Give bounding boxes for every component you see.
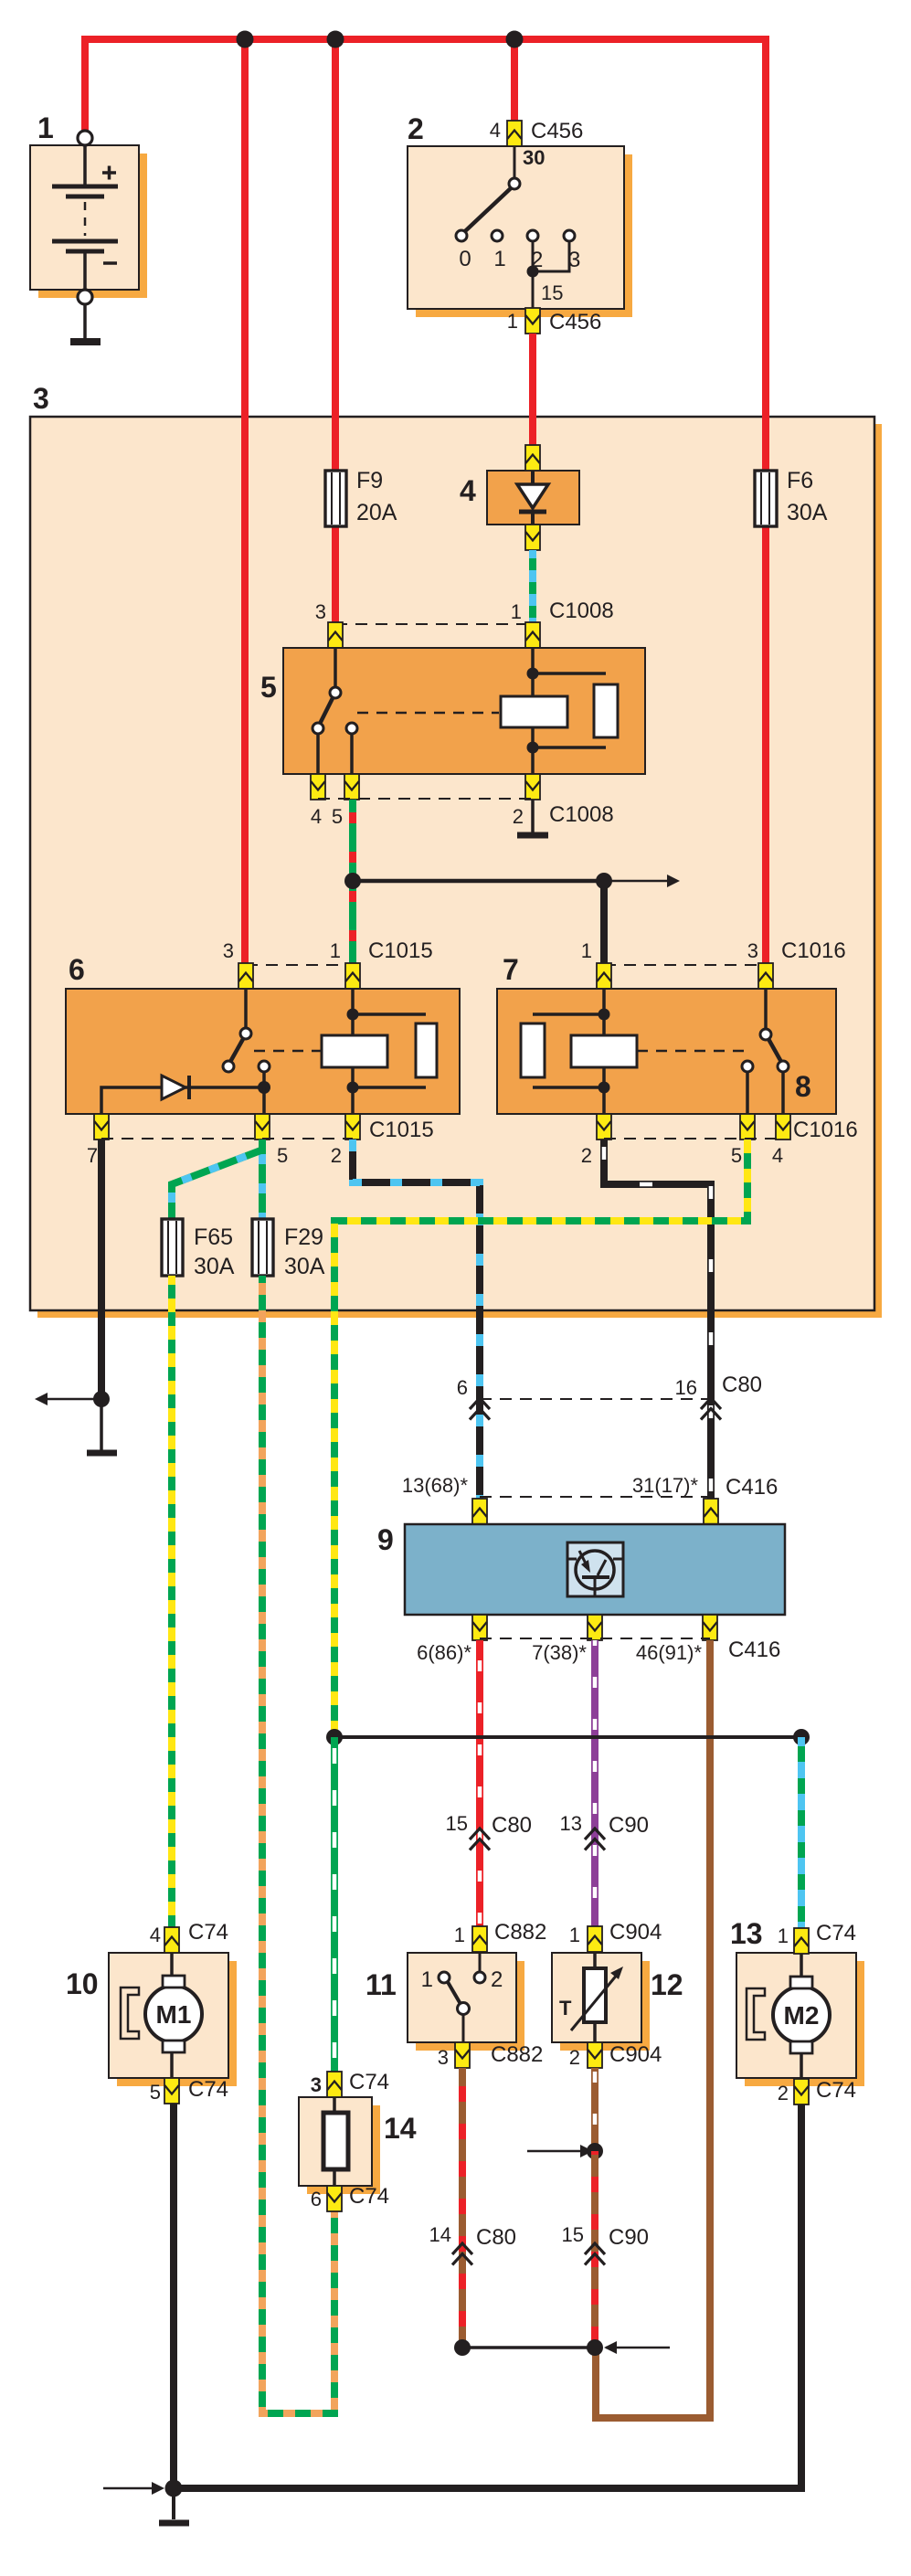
connector C416 pin 13(68) xyxy=(472,1499,487,1524)
junction node (x=661,y=964) xyxy=(596,873,612,889)
svg-text:6: 6 xyxy=(311,2188,322,2210)
connector relay5 pin 3 xyxy=(328,622,343,648)
svg-text:C882: C882 xyxy=(494,1920,546,1945)
svg-text:30: 30 xyxy=(523,146,545,169)
connector relay5 pin 2 xyxy=(525,774,540,800)
junction node (x=651,y=2569) xyxy=(587,2339,603,2356)
svg-text:C74: C74 xyxy=(188,1920,228,1945)
svg-text:C80: C80 xyxy=(476,2225,516,2250)
wire: green/white from junction to resistor 14 pin 3 xyxy=(331,1737,338,2073)
svg-text:6(86)*: 6(86)* xyxy=(417,1641,471,1664)
fuse F6 30A xyxy=(755,468,828,526)
control module 9 xyxy=(377,1523,785,1615)
svg-text:C90: C90 xyxy=(609,1813,649,1838)
svg-text:7(38)*: 7(38)* xyxy=(532,1641,587,1664)
connector resistor14 pin 6 C74 xyxy=(311,2184,389,2211)
wire: black from junction to relay 7 pin 1 xyxy=(600,881,608,965)
connector relay7 pin 3 xyxy=(758,963,773,989)
svg-text:13: 13 xyxy=(730,1917,763,1950)
connector M2 pin 2 C74 xyxy=(778,2078,856,2104)
relay 5 coil and resistor xyxy=(501,648,618,774)
svg-text:5: 5 xyxy=(260,671,277,704)
wire: brown/red from switch 11 pin 3 to bottom junction xyxy=(459,2068,466,2348)
svg-text:C1016: C1016 xyxy=(793,1118,858,1142)
svg-text:3: 3 xyxy=(315,600,326,623)
svg-text:M1: M1 xyxy=(156,2000,192,2029)
ignition switch internals: terminal 30, rotor contacts 0 1 2 3 xyxy=(456,146,580,308)
in-line connector C80 pin 14 xyxy=(429,2223,517,2265)
svg-text:8: 8 xyxy=(795,1070,811,1103)
svg-text:15: 15 xyxy=(562,2223,584,2246)
junction node on bus (x=563) xyxy=(506,31,524,48)
connector relay7 pin 5 xyxy=(740,1114,755,1140)
svg-text:C416: C416 xyxy=(728,1638,780,1662)
junction node (x=386,y=964) xyxy=(344,873,361,889)
svg-text:2: 2 xyxy=(569,2046,580,2069)
relay 7 coil and resistor xyxy=(521,989,637,1114)
svg-text:4: 4 xyxy=(311,805,322,828)
relay 7 switch contact xyxy=(637,989,789,1114)
svg-text:16: 16 xyxy=(675,1376,697,1399)
svg-text:5: 5 xyxy=(150,2081,161,2104)
svg-text:5: 5 xyxy=(277,1144,288,1167)
ground (relay 5 pin 2) xyxy=(517,800,548,835)
junction node (x=651,y=2354) xyxy=(587,2143,603,2159)
svg-text:14: 14 xyxy=(384,2112,417,2145)
svg-text:13: 13 xyxy=(560,1812,582,1835)
svg-text:F6: F6 xyxy=(787,468,813,493)
diode symbol xyxy=(517,471,548,525)
connector C416 dashed line (top) xyxy=(402,1474,779,1500)
cooling fan motor 13 (M2) xyxy=(730,1917,864,2086)
connector into diode (top) xyxy=(525,445,540,471)
connector M1 pin 4 C74 xyxy=(150,1920,228,1953)
in-line connector C90 pin 15 xyxy=(562,2223,650,2265)
svg-text:2: 2 xyxy=(581,1144,592,1167)
thermistor 12 xyxy=(552,1953,683,2051)
cooling fan motor 10 (M1) xyxy=(66,1953,237,2086)
svg-text:T: T xyxy=(559,1997,572,2019)
svg-text:4: 4 xyxy=(460,474,476,507)
wire: black link row between wire junctions xyxy=(334,1735,801,1739)
svg-text:1: 1 xyxy=(493,247,505,271)
svg-text:C74: C74 xyxy=(349,2070,389,2094)
relay 7 connector dashed line C1016 (bottom) xyxy=(581,1118,858,1167)
fuse/relay box 3 (engine junction box) xyxy=(30,382,882,1318)
connector relay6 pin 3 xyxy=(238,963,253,989)
svg-text:C1008: C1008 xyxy=(549,802,614,827)
svg-text:1: 1 xyxy=(581,939,592,962)
svg-text:1: 1 xyxy=(511,600,522,623)
svg-text:C80: C80 xyxy=(492,1813,532,1838)
wire: yellow/green from F65 to motor M1 pin 4 xyxy=(168,1276,175,1929)
connector M2 pin 1 C74 xyxy=(778,1921,856,1954)
svg-text:2: 2 xyxy=(408,112,424,145)
svg-text:C74: C74 xyxy=(816,1921,856,1945)
svg-text:C1008: C1008 xyxy=(549,599,614,623)
connector relay5 pin 1 xyxy=(525,622,540,648)
svg-text:C74: C74 xyxy=(188,2077,228,2102)
wire: black from M1 pin 5 to main ground xyxy=(170,2104,177,2488)
wire: red drop to ignition switch pin 4 xyxy=(511,39,518,122)
svg-text:F29: F29 xyxy=(284,1224,323,1250)
connector relay6 pin 1 xyxy=(345,963,360,989)
relay 5 connector dashed line C1008 (top) xyxy=(315,599,614,624)
svg-text:5: 5 xyxy=(731,1144,742,1167)
wire: light-blue/green from diode to C1008 pin 1 xyxy=(529,550,536,624)
connector switch11 pin 1 C882 xyxy=(454,1920,547,1952)
svg-text:C74: C74 xyxy=(349,2184,389,2209)
resistor 14 xyxy=(299,2097,417,2194)
svg-text:C904: C904 xyxy=(609,2042,662,2067)
svg-text:2: 2 xyxy=(513,805,524,828)
svg-text:1: 1 xyxy=(569,1924,580,1946)
svg-text:C74: C74 xyxy=(816,2078,856,2103)
svg-text:F9: F9 xyxy=(356,468,383,493)
diode unit 4 xyxy=(460,471,579,525)
wire: green/yellow from relay7 pin5 across box to junction xyxy=(334,1140,747,1737)
wire: red drop to relay 6 pin 3 xyxy=(241,39,249,965)
wire: black from relay6 pin7 to ground xyxy=(98,1140,105,1399)
relay 6 connector dashed line C1015 (bottom) xyxy=(87,1118,434,1167)
relay 7 body xyxy=(497,953,836,1114)
svg-text:C904: C904 xyxy=(609,1920,662,1945)
svg-text:3: 3 xyxy=(747,939,758,962)
wire: black link between bottom junctions with arrow xyxy=(462,2341,670,2354)
svg-text:1: 1 xyxy=(507,310,518,333)
connector C416 pin 7(38) xyxy=(588,1615,602,1640)
junction node on bus (x=367) xyxy=(327,31,344,48)
junction node on bus (x=268) xyxy=(237,31,254,48)
svg-text:2: 2 xyxy=(491,1967,503,1992)
wire: brown/white from thermistor 12 pin 2 to junction xyxy=(591,2068,599,2151)
svg-text:2: 2 xyxy=(778,2082,789,2104)
wire: green/red from relay5 pin 5 to relay6 pin 1 xyxy=(349,800,356,965)
connector C416 pin 31(17) xyxy=(704,1499,718,1524)
svg-text:1: 1 xyxy=(778,1924,789,1947)
connector thermistor12 pin 2 C904 xyxy=(569,2042,662,2069)
switch 11 xyxy=(365,1953,524,2051)
wire: red/white from module 9 pin 6(86) to switch 11 pin 1 xyxy=(476,1640,483,1928)
svg-text:0: 0 xyxy=(459,247,471,271)
wire: red drop through F9 to relay 5 pin 3 xyxy=(332,39,339,624)
svg-text:4: 4 xyxy=(150,1924,161,1946)
svg-text:31(17)*: 31(17)* xyxy=(632,1474,699,1497)
svg-text:20A: 20A xyxy=(356,500,397,525)
svg-text:1: 1 xyxy=(37,111,54,144)
ground (battery negative) xyxy=(70,304,101,342)
svg-text:10: 10 xyxy=(66,1967,99,2000)
connector pin 4 C456 xyxy=(490,119,584,146)
svg-text:F65: F65 xyxy=(194,1224,233,1250)
transistor symbol U1 inside module 9 xyxy=(567,1542,623,1596)
battery 1 xyxy=(30,111,147,304)
svg-text:C456: C456 xyxy=(531,119,583,143)
connector thermistor12 pin 1 C904 xyxy=(569,1920,662,1952)
connector resistor14 pin 3 C74 xyxy=(311,2070,389,2097)
svg-text:2: 2 xyxy=(331,1144,342,1167)
svg-text:C882: C882 xyxy=(491,2042,543,2067)
svg-text:M2: M2 xyxy=(784,2001,820,2030)
relay 6 switch contact xyxy=(223,989,322,1087)
resistor 14 element xyxy=(323,2097,348,2186)
wire: black/light-blue from relay6 pin2 to C416 pin 13(68) xyxy=(353,1140,480,1500)
svg-text:11: 11 xyxy=(365,1968,397,2001)
svg-text:15: 15 xyxy=(446,1812,468,1835)
motor M1 symbol xyxy=(121,1953,202,2078)
svg-text:C1015: C1015 xyxy=(369,1118,434,1142)
svg-text:1: 1 xyxy=(454,1924,465,1946)
relay 6 suppression diode xyxy=(101,1076,270,1114)
connector relay7 pin 4 xyxy=(776,1114,790,1140)
connector switch11 pin 3 C882 xyxy=(438,2042,544,2069)
motor M2 symbol xyxy=(747,1954,830,2079)
svg-text:1: 1 xyxy=(421,1967,433,1992)
in-line connector C90 pin 13 xyxy=(560,1812,650,1850)
wire: red from ignition switch to diode 4 xyxy=(529,334,536,447)
wire: green/light-blue from relay6 pin5 to fuses F65 F29 xyxy=(172,1140,263,1219)
in-line connector C80 pins 6 and 16 xyxy=(457,1373,762,1420)
svg-text:30A: 30A xyxy=(787,500,828,525)
svg-text:5: 5 xyxy=(332,805,343,828)
fuse F29 30A xyxy=(252,1219,325,1279)
svg-text:6: 6 xyxy=(457,1376,468,1399)
svg-text:C1015: C1015 xyxy=(368,938,433,963)
svg-text:C1016: C1016 xyxy=(781,938,846,963)
wire: black link row to relay 7 pin 1 xyxy=(353,875,680,887)
wire: light-blue/green from junction to motor M2 pin 1 xyxy=(798,1737,805,1929)
arrow link into thermistor junction xyxy=(527,2145,593,2157)
fuse F65 30A xyxy=(162,1219,235,1279)
switch 11 internals xyxy=(421,1952,503,2042)
thermistor symbol (T) xyxy=(559,1952,623,2042)
relay 5 connector dashed line C1008 (bottom) xyxy=(311,799,614,828)
svg-text:3: 3 xyxy=(223,939,234,962)
svg-text:12: 12 xyxy=(651,1968,683,2001)
wire: purple/white from module 9 pin 7(38) to thermistor 12 pin 1 xyxy=(591,1640,599,1928)
svg-text:9: 9 xyxy=(377,1523,394,1556)
connector relay6 pin 5 xyxy=(255,1114,270,1140)
connector relay7 pin 2 xyxy=(597,1114,611,1140)
wire: brown/red from junction to C90 pin 15 and bottom junction xyxy=(591,2151,599,2348)
svg-text:C416: C416 xyxy=(726,1475,778,1500)
wire: battery positive red bus xyxy=(85,39,766,472)
relay 6 coil and resistor xyxy=(322,989,437,1114)
connector C416 pin 46(91) xyxy=(703,1615,717,1640)
svg-text:C90: C90 xyxy=(609,2225,649,2250)
connector pin 1 C456 xyxy=(507,308,602,334)
svg-text:14: 14 xyxy=(429,2223,451,2246)
connector relay7 pin 1 xyxy=(597,963,611,989)
connector out of diode (bottom) xyxy=(525,525,540,550)
svg-text:13(68)*: 13(68)* xyxy=(402,1474,469,1497)
wire: brown from module 9 pin 46(91) looping to thermistor junction xyxy=(596,1640,710,2418)
relay 5 body xyxy=(260,648,645,774)
svg-text:7: 7 xyxy=(87,1144,98,1167)
in-line connector C80 pin 15 xyxy=(446,1812,533,1850)
junction node (x=506,y=2569) xyxy=(454,2339,471,2356)
svg-text:30A: 30A xyxy=(194,1254,235,1279)
svg-text:4: 4 xyxy=(772,1144,783,1167)
relay 6 connector dashed line C1015 (top) xyxy=(223,938,433,965)
junction node + ground (relay6 pin7 branch) xyxy=(35,1391,117,1453)
svg-text:30A: 30A xyxy=(284,1254,325,1279)
relay 7 connector dashed line C1016 (top) xyxy=(581,938,846,965)
svg-text:3: 3 xyxy=(438,2046,449,2069)
wire: green/orange from F29 down and around to resistor 14 pin 6 xyxy=(262,1276,334,2413)
wire: red drop F6 to relay 7 pin 3 xyxy=(762,472,769,965)
svg-text:1: 1 xyxy=(330,939,341,962)
svg-text:6: 6 xyxy=(69,953,85,986)
main ground junction and symbol xyxy=(103,2480,189,2524)
connector relay5 pin 5 xyxy=(344,774,359,800)
svg-text:C456: C456 xyxy=(549,310,601,334)
connector C416 dashed line (bottom) xyxy=(417,1638,780,1664)
connector relay5 pin 4 xyxy=(311,774,325,800)
wire: black from M2 pin 2 to main ground xyxy=(174,2104,801,2488)
relay 6 body xyxy=(66,953,460,1114)
relay 5 switch contact xyxy=(312,648,499,774)
svg-text:7: 7 xyxy=(503,953,519,986)
ignition switch 2 xyxy=(408,112,632,317)
connector C416 pin 6(86) xyxy=(472,1615,487,1640)
svg-text:C80: C80 xyxy=(722,1373,762,1397)
svg-text:3: 3 xyxy=(33,382,49,415)
svg-text:46(91)*: 46(91)* xyxy=(636,1641,703,1664)
connector M1 pin 5 C74 xyxy=(150,2077,228,2104)
junction node (x=366,y=1901) xyxy=(326,1729,343,1745)
connector relay6 pin 2 xyxy=(345,1114,360,1140)
connector relay6 pin 7 xyxy=(94,1114,109,1140)
fuse F9 20A xyxy=(325,468,397,526)
svg-text:15: 15 xyxy=(541,281,563,304)
svg-text:4: 4 xyxy=(490,119,501,142)
wire: black/white from relay7 pin2 to C416 pin 31(17) xyxy=(604,1140,711,1500)
junction node (x=877,y=1901) xyxy=(793,1729,810,1745)
svg-text:3: 3 xyxy=(311,2073,322,2096)
